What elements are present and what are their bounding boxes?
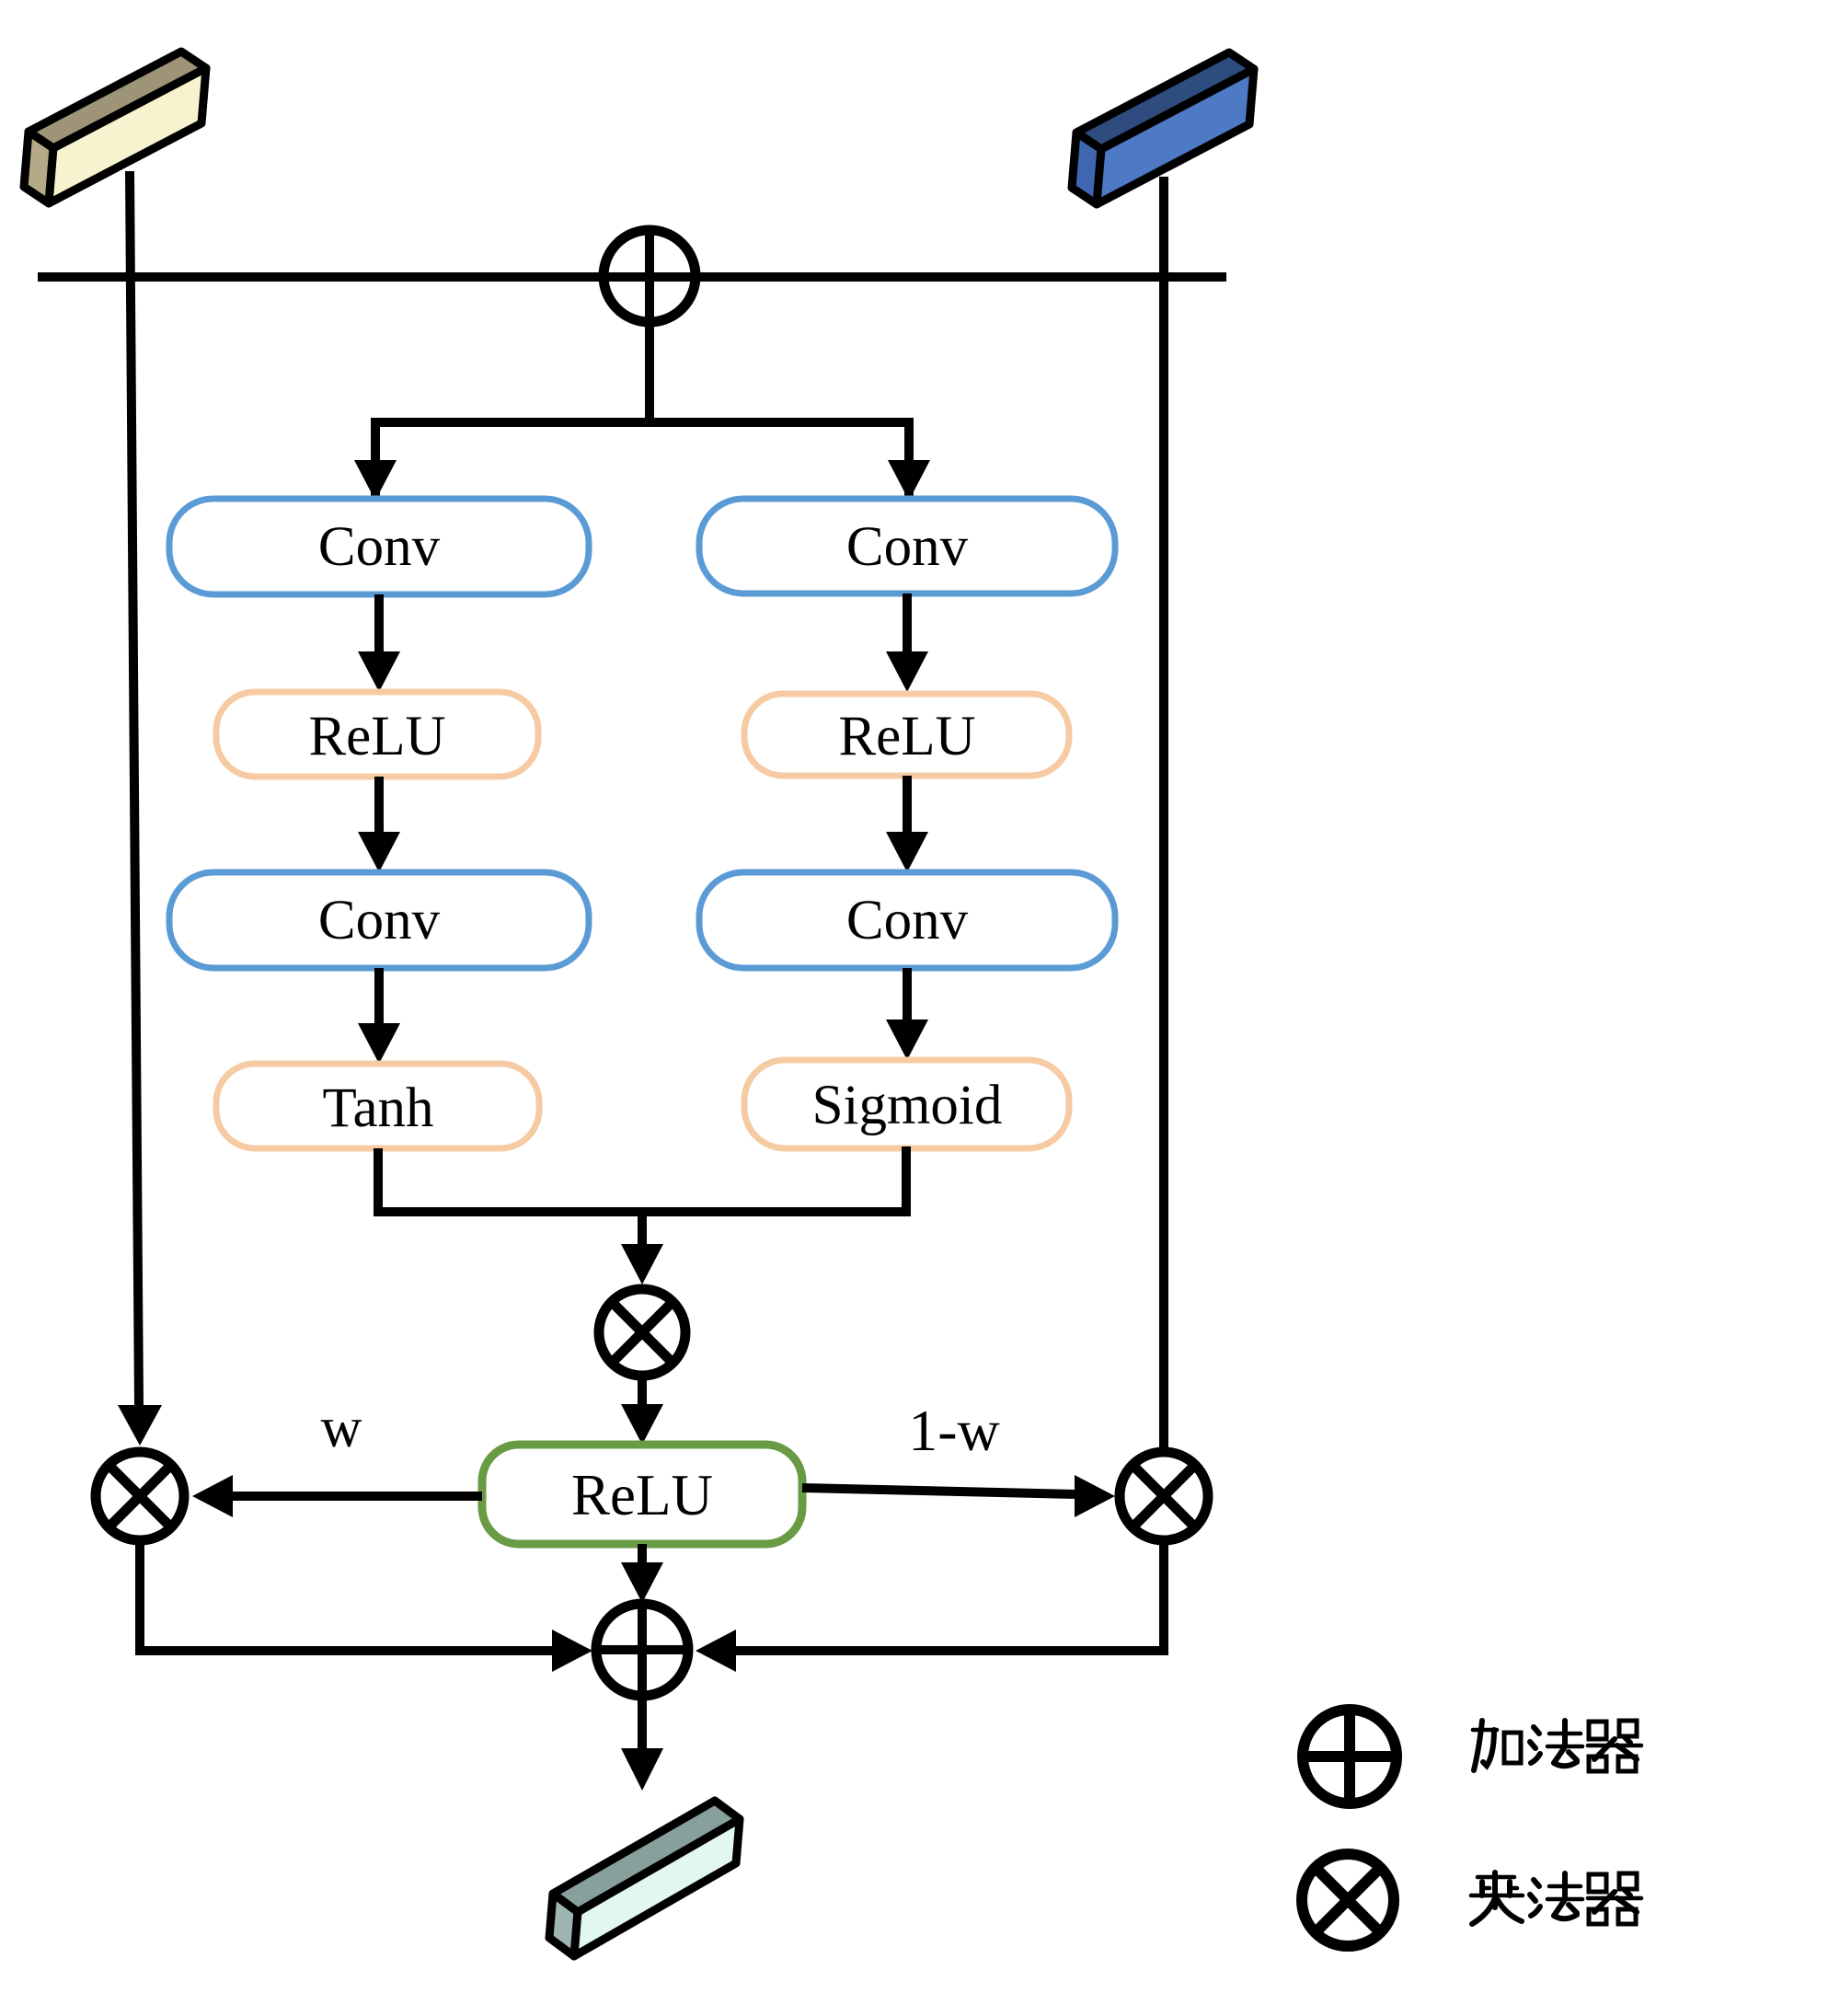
conv box R1 <box>699 499 1115 593</box>
relu box R <box>744 694 1069 776</box>
sigmoid box <box>744 1060 1069 1148</box>
svg-text:Sigmoid: Sigmoid <box>812 1075 1003 1136</box>
char 加 <box>1473 1721 1521 1770</box>
svg-text:Conv: Conv <box>318 890 441 951</box>
multiplier MUL-L (left) <box>96 1452 184 1540</box>
wire: vertical below top adder <box>645 227 654 422</box>
svg-text:ReLU: ReLU <box>838 706 975 767</box>
wire: left multiplier down and right to bottom adder <box>140 1540 552 1651</box>
multiplier MUL-R (right) <box>1120 1452 1208 1540</box>
wire: branch split horizontal <box>375 422 909 500</box>
char 器 <box>1588 1721 1641 1771</box>
char 法 <box>1530 1721 1582 1766</box>
wire+arrow green ReLU to left multiplier <box>232 1492 482 1501</box>
legend multiplier symbol <box>1302 1854 1394 1946</box>
output bar (cyan 3D) <box>549 1801 740 1956</box>
adder ADD1 (top) <box>604 230 696 322</box>
input bar B (blue 3D) <box>1072 52 1254 204</box>
wire+arrow green ReLU to right multiplier <box>802 1488 1076 1494</box>
wire: merge of Tanh and Sigmoid outputs <box>378 1146 906 1212</box>
multiplier MUL1 (center) <box>599 1289 685 1376</box>
char 器 (2) <box>1588 1873 1641 1924</box>
wire+arrow ConvL2 to Tanh <box>374 968 384 1025</box>
wire: right vertical from input B <box>1159 177 1168 1447</box>
wire+arrow MUL1 to ReLU (green) <box>638 1376 647 1406</box>
svg-text:Conv: Conv <box>846 516 969 578</box>
char 乘 <box>1471 1872 1523 1924</box>
conv box L2 <box>169 872 589 968</box>
svg-text:Conv: Conv <box>846 890 969 951</box>
legend adder symbol <box>1303 1710 1397 1803</box>
legend adder text 加法器 <box>1473 1721 1641 1771</box>
svg-text:w: w <box>321 1397 362 1459</box>
arrowhead to output <box>621 1748 663 1791</box>
wire+arrow green ReLU down to bottom adder <box>638 1544 647 1564</box>
wire: left vertical from input A <box>130 171 139 1406</box>
conv box R2 <box>699 872 1115 968</box>
legend multiplier text 乘法器 <box>1471 1872 1641 1924</box>
relu box green <box>482 1445 802 1544</box>
wire+arrow ConvR2 to Sigmoid <box>903 968 912 1021</box>
char 法 (2) <box>1530 1873 1582 1918</box>
adder ADD2 (bottom) with through line <box>596 1604 688 1750</box>
wire+arrow ReLU R to ConvR2 <box>903 776 912 834</box>
wire+arrow into multiplier MUL1 <box>638 1212 647 1246</box>
wire: right multiplier down and left to bottom adder <box>736 1540 1164 1651</box>
wire+arrow ConvR1 to ReLU R <box>903 593 912 653</box>
arrowhead into left multiplier <box>118 1405 162 1446</box>
svg-text:1-w: 1-w <box>908 1398 1000 1463</box>
wire+arrow ConvL1 to ReLU L <box>374 594 384 653</box>
svg-text:ReLU: ReLU <box>308 706 445 767</box>
wire: top horizontal bus <box>38 272 1226 282</box>
arrowhead into left Conv1 <box>354 460 397 501</box>
input bar A (tan 3D) <box>24 52 206 203</box>
tanh box <box>216 1064 539 1148</box>
conv box L1 <box>169 499 589 594</box>
svg-text:ReLU: ReLU <box>571 1463 713 1527</box>
wire+arrow ReLU L to ConvL2 <box>374 777 384 834</box>
relu box L <box>216 692 538 777</box>
arrowhead into right Conv1 <box>888 460 930 501</box>
svg-text:Tanh: Tanh <box>322 1077 433 1139</box>
svg-text:Conv: Conv <box>318 516 441 578</box>
